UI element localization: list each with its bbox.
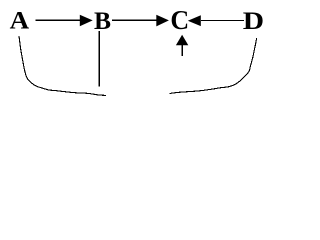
arrow A to B xyxy=(35,15,92,27)
right curve wire from D down to below C xyxy=(170,38,257,94)
svg-text:D: D xyxy=(243,7,264,34)
arrow B to C xyxy=(112,15,169,27)
svg-text:C: C xyxy=(170,4,189,35)
svg-text:A: A xyxy=(10,6,30,34)
svg-text:B: B xyxy=(94,7,111,35)
arrow D to C xyxy=(188,15,244,26)
left curve wire from A down to below B xyxy=(19,36,106,95)
up arrow into C xyxy=(176,35,188,56)
vertical wire below B xyxy=(98,31,100,86)
